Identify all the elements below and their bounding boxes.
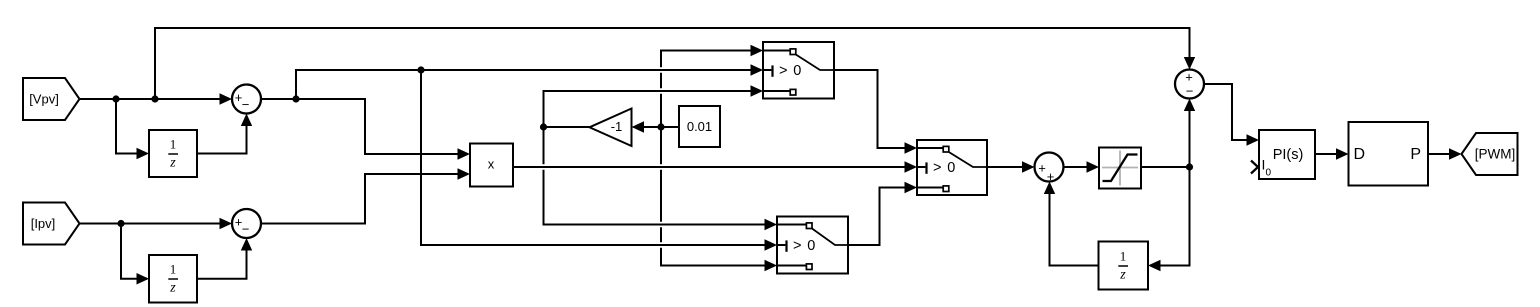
arrowhead into Sum1 left [220, 93, 233, 104]
arrowhead into Switch3 middle [765, 239, 778, 250]
svg-text:−: − [242, 222, 250, 237]
svg-text:1: 1 [170, 137, 177, 152]
arrowhead into Switch2 middle [905, 161, 918, 172]
arrowhead into Switch1 bottom [751, 85, 764, 96]
switch block Switch3 (bottom) [777, 217, 848, 274]
arrowhead into Switch1 top [751, 45, 764, 56]
sum block Sum3 (+ +) [1035, 153, 1064, 185]
arrowhead into Sum4 top (pointing down) [1184, 57, 1195, 70]
wire Vpv branch top line to Sum4 [155, 28, 1190, 99]
wire Constant 0.01 to Gain [634, 126, 680, 128]
arrowhead into Switch3 top [765, 219, 778, 230]
sum block Sum4 (+ -) [1175, 70, 1204, 99]
svg-text:PI(s): PI(s) [1273, 147, 1304, 163]
wire PWM generator out to PWM tag [1428, 153, 1460, 155]
svg-text:>: > [779, 63, 787, 79]
wire branch to Switch3 middle [418, 72, 424, 243]
svg-text:[PWM]: [PWM] [1475, 147, 1516, 162]
wire Switch2 out to Sum3 [987, 166, 1033, 168]
node junction Sum1 out [292, 95, 299, 102]
svg-text:x: x [488, 156, 495, 171]
arrowhead into UnitDelay3 (pointing left) [1148, 260, 1161, 271]
wire Constant branch to Switch1 top and Switch3 bottom [661, 51, 775, 266]
node junction Constant out [657, 123, 664, 130]
arrowhead into Sum2 left [220, 218, 233, 229]
svg-text:1: 1 [1120, 249, 1127, 264]
arrowhead into PWM tag [1449, 148, 1462, 159]
svg-text:0: 0 [1266, 168, 1272, 179]
wire PI out to PWM generator [1315, 153, 1347, 155]
product block x [470, 144, 513, 187]
node junction Vpv-topline [151, 95, 158, 102]
svg-text:z: z [1119, 268, 1126, 283]
svg-text:+: + [1047, 169, 1055, 184]
arrowhead into Sum1 bottom [241, 114, 252, 127]
wire Ipv branch to UnitDelay2 [121, 224, 147, 279]
wire Sum1 out to Switch1 middle [298, 67, 759, 73]
svg-text:1: 1 [170, 262, 177, 277]
arrowhead into UnitDelay2 [137, 273, 150, 284]
goto tag PWM [1462, 133, 1518, 175]
wire junction down to UnitDelay3 [1150, 167, 1190, 266]
wire Product out to Switch2 middle [516, 164, 914, 170]
svg-text:0: 0 [793, 63, 801, 79]
node junction Vpv-delay [112, 95, 119, 102]
from tag Ipv [23, 203, 80, 245]
saturation block [1099, 148, 1141, 189]
arrowhead into Switch2 bottom [905, 182, 918, 193]
arrowhead into Switch1 middle [751, 64, 764, 75]
wire Gain out to junction [544, 126, 590, 128]
wire Vpv branch to UnitDelay1 [116, 99, 147, 154]
sum block Sum1 (Vpv - delayed) [232, 85, 261, 114]
arrowhead into PWM generator [1336, 148, 1349, 159]
unit delay 1/z (Vpv) [149, 130, 197, 177]
arrowhead into PI [1247, 134, 1260, 145]
unit delay 1/z (Ipv) [149, 255, 197, 303]
arrowhead into Product top [458, 148, 471, 159]
svg-text:[Ipv]: [Ipv] [31, 216, 56, 231]
svg-text:0: 0 [947, 160, 955, 176]
svg-text:+: + [1038, 160, 1046, 175]
wire Vpv to Sum1 [80, 98, 231, 100]
svg-text:z: z [169, 281, 176, 296]
wire Ipv to Sum2 [80, 223, 231, 225]
arrowhead into Sum2 bottom [241, 238, 252, 251]
node junction Ipv-delay [117, 220, 124, 227]
switch block Switch2 (middle) [917, 140, 987, 195]
wire Switch3 out to Switch2 bottom [848, 188, 915, 246]
wire Switch1 out to Switch2 top [834, 70, 915, 148]
svg-text:-1: -1 [611, 119, 623, 134]
wire UnitDelay3 out to Sum3 bottom [1050, 184, 1099, 266]
svg-text:>: > [933, 160, 941, 176]
arrowhead into Gain (pointing left) [632, 121, 645, 132]
PWM generator block D-P [1349, 122, 1429, 186]
node junction dV branch [417, 66, 424, 73]
PI controller block PI(s) [1251, 130, 1315, 179]
gain -1 (pointing left) [590, 109, 632, 147]
node junction Gain out [540, 123, 547, 130]
constant 0.01 [679, 106, 720, 147]
wire Sum1 branch to Product top [296, 99, 468, 154]
arrowhead into Switch3 bottom [765, 260, 778, 271]
svg-text:−: − [1186, 84, 1194, 99]
from tag Vpv [23, 78, 80, 120]
arrowhead into Switch2 top [905, 142, 918, 153]
wire UnitDelay1 to Sum1 bottom [197, 116, 247, 154]
arrowhead into UnitDelay1 [137, 148, 150, 159]
wire Gain branch to Switch1 bottom and Switch3 top [546, 88, 759, 94]
wire junction up to Sum4 bottom [1189, 101, 1191, 168]
svg-text:P: P [1410, 146, 1421, 163]
svg-text:+: + [1185, 70, 1193, 85]
arrowhead into Sum3 bottom [1044, 182, 1055, 195]
arrowhead into Product bottom [458, 168, 471, 179]
unit delay 1/z (feedback) [1099, 242, 1149, 290]
svg-text:z: z [169, 156, 176, 171]
wire Sum3 out to Saturation [1064, 166, 1098, 168]
arrowhead into Sum4 bottom (pointing up) [1184, 99, 1195, 112]
wire Sum4 out to PI [1204, 84, 1257, 140]
svg-text:>: > [793, 238, 801, 254]
svg-text:0.01: 0.01 [687, 119, 712, 134]
wire UnitDelay2 to Sum2 bottom [197, 240, 247, 279]
svg-text:−: − [242, 97, 250, 112]
sum block Sum2 (Ipv - delayed) [232, 209, 261, 238]
wire Saturation out to junction [1141, 166, 1190, 168]
svg-text:[Vpv]: [Vpv] [29, 92, 59, 107]
arrowhead into Sum3 left [1022, 161, 1035, 172]
node junction Saturation out [1186, 163, 1193, 170]
svg-text:D: D [1354, 146, 1366, 163]
arrowhead into Saturation [1087, 161, 1100, 172]
wire Sum2 out to Product bottom [261, 174, 468, 224]
svg-text:0: 0 [807, 238, 815, 254]
switch block Switch1 (top) [763, 42, 834, 99]
